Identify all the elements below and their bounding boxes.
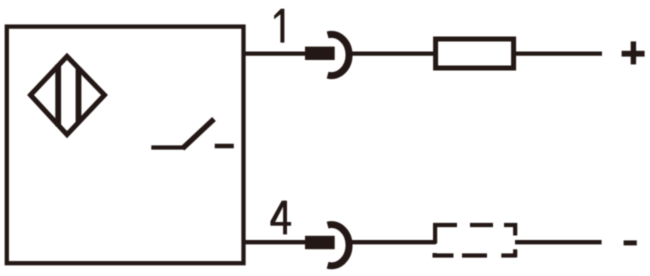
- optional load (dashed box) right edge dashes: [513, 223, 517, 236]
- connector pin 1 socket arc: [328, 34, 349, 75]
- connector pin 1 male pin: [305, 47, 335, 60]
- switch S1 left lead: [151, 145, 184, 149]
- sensor body box: [7, 27, 244, 264]
- minus terminal sign: [624, 240, 637, 245]
- plus terminal sign: [622, 41, 645, 64]
- wire pin1 from box to connector: [243, 51, 306, 55]
- wire load R to plus terminal: [516, 51, 602, 55]
- proximity sensor symbol (diamond): [31, 56, 105, 134]
- wire pin1 connector to load R: [351, 51, 435, 55]
- diamond inner bar left: [55, 65, 61, 127]
- switch S1 blade (NO contact): [183, 119, 215, 149]
- wire pin4 connector to dashed load: [351, 240, 436, 244]
- pin label 1: [274, 9, 284, 43]
- diamond inner bar right: [76, 68, 82, 124]
- connector pin 4 male pin: [305, 236, 335, 249]
- wire pin4 from box to connector: [243, 240, 306, 244]
- optional load (dashed box) bottom edge dashes: [433, 253, 454, 257]
- pin label 4: [270, 201, 291, 235]
- connector pin 4 socket arc: [328, 225, 349, 266]
- optional load (dashed box) top edge dashes: [433, 223, 457, 227]
- load resistor box: [436, 39, 514, 68]
- optional load (dashed box) left edge dashes: [433, 223, 437, 244]
- switch S1 fixed contact: [215, 144, 234, 148]
- wire dashed load to minus terminal: [515, 240, 602, 244]
